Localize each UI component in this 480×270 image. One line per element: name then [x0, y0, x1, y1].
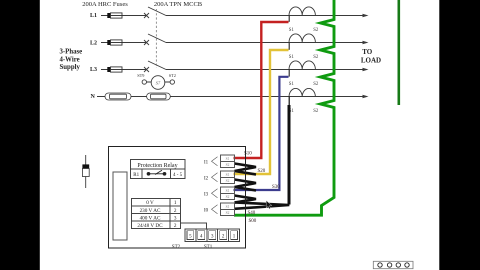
- svg-text:24/48 V DC: 24/48 V DC: [137, 223, 163, 229]
- svg-text:S1: S1: [289, 28, 295, 33]
- svg-text:ST2: ST2: [172, 245, 181, 250]
- svg-text:L3: L3: [90, 67, 97, 73]
- svg-text:TO: TO: [362, 48, 373, 56]
- svg-text:I2: I2: [204, 176, 209, 181]
- svg-text:2: 2: [174, 208, 177, 214]
- svg-text:S1: S1: [226, 189, 230, 193]
- svg-text:S30: S30: [272, 185, 280, 190]
- svg-text:I3: I3: [204, 192, 209, 197]
- svg-text:S2: S2: [226, 211, 230, 215]
- svg-text:3: 3: [174, 215, 177, 221]
- svg-text:S2: S2: [226, 179, 230, 183]
- svg-text:I0: I0: [204, 208, 209, 213]
- svg-text:4-Wire: 4-Wire: [60, 56, 80, 63]
- svg-text:S2: S2: [226, 163, 230, 167]
- svg-text:S00: S00: [249, 219, 257, 224]
- svg-text:L2: L2: [90, 41, 97, 47]
- svg-text:S2: S2: [313, 82, 319, 87]
- svg-text:400 V AC: 400 V AC: [140, 215, 161, 221]
- svg-text:S2: S2: [313, 55, 319, 60]
- svg-text:4 - 5: 4 - 5: [173, 173, 183, 178]
- svg-text:ST2: ST2: [169, 73, 176, 78]
- svg-text:S2: S2: [313, 109, 319, 114]
- svg-text:S1: S1: [226, 205, 230, 209]
- svg-text:S1: S1: [226, 157, 230, 161]
- svg-text:L1: L1: [90, 13, 97, 19]
- svg-text:200A TPN MCCB: 200A TPN MCCB: [154, 1, 203, 8]
- svg-text:ST1: ST1: [204, 245, 213, 250]
- svg-text:200A HRC Fuses: 200A HRC Fuses: [82, 1, 128, 8]
- svg-text:S40: S40: [248, 211, 256, 216]
- svg-text:0 V: 0 V: [146, 200, 154, 206]
- svg-text:S1: S1: [289, 55, 295, 60]
- svg-text:2: 2: [174, 223, 177, 229]
- svg-text:Supply: Supply: [60, 64, 81, 71]
- svg-text:N: N: [91, 94, 96, 100]
- svg-text:S20: S20: [258, 169, 266, 174]
- svg-text:Protection Relay: Protection Relay: [137, 163, 177, 169]
- svg-text:ST9: ST9: [137, 73, 144, 78]
- svg-text:230 V AC: 230 V AC: [140, 208, 161, 214]
- svg-text:3-Phase: 3-Phase: [60, 49, 83, 56]
- svg-text:S1: S1: [226, 173, 230, 177]
- svg-text:S2: S2: [226, 195, 230, 199]
- svg-text:S1: S1: [289, 82, 295, 87]
- svg-text:LOAD: LOAD: [361, 56, 381, 64]
- svg-text:I1: I1: [204, 160, 209, 165]
- svg-text:1: 1: [174, 200, 177, 206]
- svg-text:R1: R1: [133, 173, 139, 178]
- svg-text:S2: S2: [313, 28, 319, 33]
